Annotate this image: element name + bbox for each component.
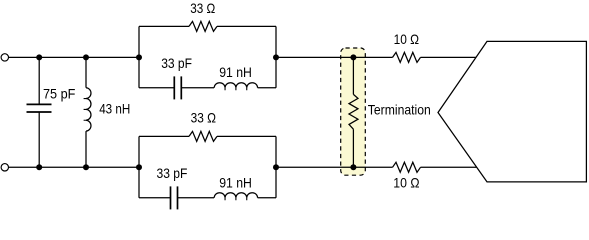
node junction: top rail / C1	[36, 54, 42, 60]
inductor L3 91 nH (bottom block lower branch)	[214, 193, 276, 201]
wire bottom rail: 10 ohm resistor to pentagon	[421, 166, 478, 168]
node junction: bottom rail / bottom block right	[273, 164, 279, 170]
svg-text:75 pF: 75 pF	[43, 87, 75, 102]
svg-text:33 Ω: 33 Ω	[191, 111, 216, 126]
resistor R4 10 ohm (top rail)	[393, 52, 421, 62]
wire bottom rail: bottom block right edge to 10 ohm resistor	[276, 166, 393, 168]
svg-text:91 nH: 91 nH	[219, 65, 252, 80]
svg-text:91 nH: 91 nH	[219, 175, 252, 190]
port terminal P1 (top left open circle)	[1, 54, 8, 61]
node junction: bottom rail / termination	[350, 164, 356, 170]
svg-text:33 Ω: 33 Ω	[190, 1, 215, 16]
capacitor C3 33 pF (bottom block lower branch)	[139, 186, 214, 209]
resistor R2 33 ohm (bottom block upper branch)	[139, 131, 276, 141]
node junction: top rail / L1	[83, 54, 89, 60]
wire top rail: top block right edge to 10 ohm resistor	[276, 56, 393, 58]
capacitor C1 75 pF (shunt, left)	[27, 57, 52, 167]
top parallel block frame (left and right edges)	[139, 26, 276, 87]
svg-text:10 Ω: 10 Ω	[394, 32, 420, 47]
resistor R5 10 ohm (bottom rail)	[393, 162, 421, 172]
node junction: top rail / top block left	[136, 54, 142, 60]
inductor L2 91 nH (top block lower branch)	[214, 83, 276, 91]
bottom parallel block frame (left and right edges)	[139, 136, 276, 197]
node junction: bottom rail / L1	[83, 164, 89, 170]
svg-text:43 nH: 43 nH	[99, 102, 130, 117]
inductor L1 43 nH (shunt)	[84, 57, 91, 167]
wire top rail: 10 ohm resistor to pentagon	[421, 56, 478, 58]
svg-text:Termination: Termination	[368, 103, 431, 118]
node junction: top rail / top block right	[273, 54, 279, 60]
capacitor C2 33 pF (top block lower branch)	[139, 76, 214, 99]
svg-text:33 pF: 33 pF	[161, 56, 192, 71]
node junction: top rail / termination	[350, 54, 356, 60]
wire bottom rail: terminal to bottom block left edge	[8, 166, 139, 168]
node junction: bottom rail / C1	[36, 164, 42, 170]
device under test pentagon (right)	[438, 41, 586, 182]
resistor R3 termination (vertical, inside dashed box)	[349, 57, 358, 167]
wire top rail: terminal to top block left edge	[8, 56, 139, 58]
port terminal P2 (bottom left open circle)	[1, 164, 8, 171]
termination highlight box (dashed rounded rect)	[341, 48, 366, 175]
node junction: bottom rail / bottom block left	[136, 164, 142, 170]
svg-text:10 Ω: 10 Ω	[393, 176, 419, 191]
svg-text:33 pF: 33 pF	[157, 166, 188, 181]
resistor R1 33 ohm (top block upper branch)	[139, 21, 276, 31]
